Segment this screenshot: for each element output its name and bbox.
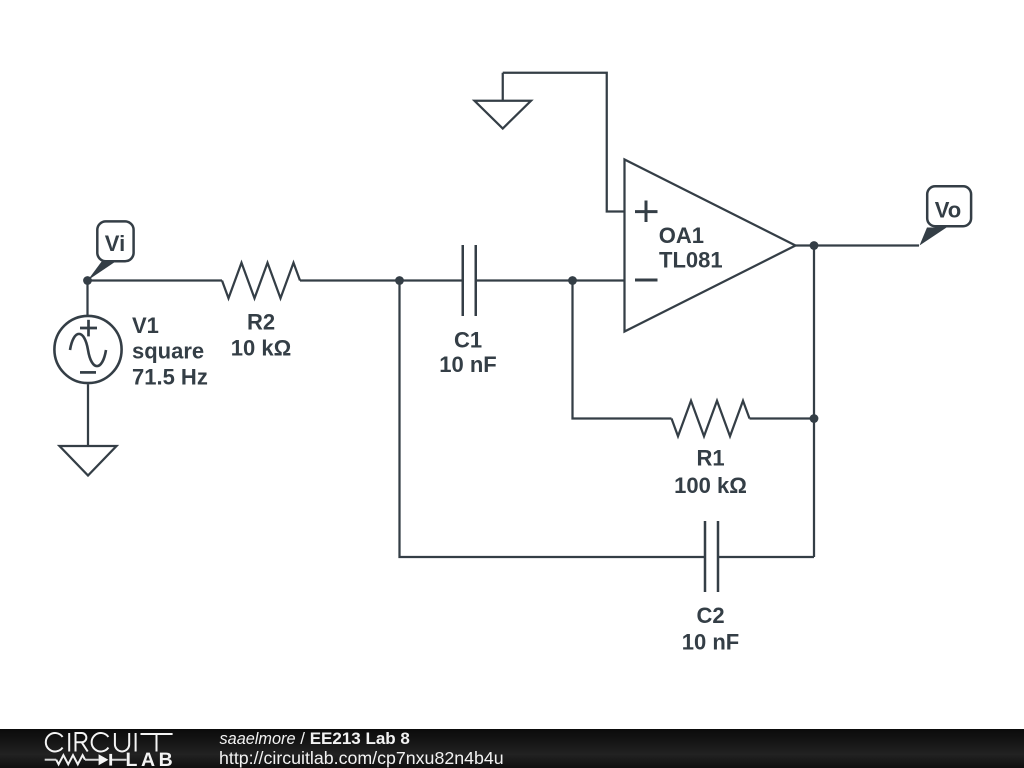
wire [400,281,706,558]
net flag Vo [920,186,972,245]
junction [395,276,404,285]
wire [88,279,223,281]
wire [300,279,462,281]
footer caption [219,729,504,768]
wire [86,281,88,317]
svg-text:OA1: OA1 [659,223,704,248]
label R1 value [674,446,747,499]
op-amp OA1 [625,160,796,332]
wire [750,417,815,419]
svg-text:V1: V1 [132,313,159,338]
svg-text:http://circuitlab.com/cp7nxu82: http://circuitlab.com/cp7nxu82n4b4u [219,748,504,768]
svg-text:R2: R2 [247,310,275,335]
svg-text:10 kΩ: 10 kΩ [231,336,291,361]
ground [475,73,532,129]
label OA1 [659,223,723,273]
net flag Vi [88,221,134,280]
footer bar [0,729,1024,768]
svg-text:R1: R1 [696,446,724,471]
svg-text:100 kΩ: 100 kΩ [674,473,747,498]
capacitor C2 [705,521,718,592]
junction [83,276,92,285]
ground [60,446,117,476]
CircuitLab logo [46,733,173,752]
capacitor C1 [463,245,476,316]
svg-text:saaelmore / EE213 Lab 8: saaelmore / EE213 Lab 8 [220,729,410,748]
svg-text:10 nF: 10 nF [439,352,496,377]
wire [796,244,920,246]
resistor R2 [222,263,300,299]
junction [568,276,577,285]
svg-text:10 nF: 10 nF [682,630,739,655]
wire [718,556,814,558]
junction [810,241,819,250]
svg-text:square: square [132,339,204,364]
wire [573,281,672,419]
label C2 value [682,603,739,655]
wire [813,246,815,558]
resistor R1 [672,401,750,437]
svg-text:LAB: LAB [126,749,173,768]
svg-text:71.5 Hz: 71.5 Hz [132,365,208,390]
svg-text:C2: C2 [696,603,724,628]
label C1 value [439,328,496,378]
svg-text:Vi: Vi [105,231,125,256]
label R2 value [231,310,291,361]
wire [503,73,625,212]
svg-text:Vo: Vo [935,197,961,222]
voltage source V1 [54,316,121,383]
svg-text:TL081: TL081 [659,248,723,273]
wire [87,384,89,446]
wire [476,279,625,281]
label V1 value [132,313,208,390]
svg-text:C1: C1 [454,328,482,353]
junction [810,414,819,423]
